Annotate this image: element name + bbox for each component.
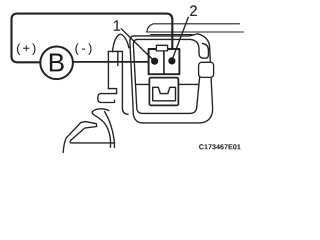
- label 2: [190, 5, 197, 15]
- bracket ear left edge: [107, 51, 109, 88]
- bracket right vertical 2: [117, 51, 119, 65]
- wire W2 battery (-) to pin 1: [73, 61, 153, 63]
- label (+): [17, 43, 35, 55]
- label (-): [75, 43, 91, 55]
- bracket foot tab: [98, 94, 117, 103]
- shelf line right: [178, 83, 198, 85]
- cable upper edge: [147, 24, 240, 32]
- label 1: [114, 20, 120, 30]
- connector inner outline: [137, 39, 208, 58]
- cable lower edge: [146, 31, 243, 33]
- rotation arrow outer curve: [92, 109, 110, 147]
- grommet arch: [113, 34, 129, 52]
- pin 1: [151, 58, 158, 65]
- keying tab: [156, 45, 167, 51]
- pin 2: [168, 57, 175, 64]
- bracket right vertical: [122, 51, 128, 114]
- rotation arrow inner curve: [105, 112, 115, 148]
- bracket ear bottom step: [108, 89, 116, 94]
- notched insert: [153, 87, 176, 101]
- lever clip: [63, 122, 114, 153]
- battery letter B: [50, 54, 64, 72]
- figure code C173467E01: [199, 144, 241, 149]
- pin box: [149, 49, 180, 74]
- cavity box: [149, 78, 178, 106]
- leader line 2: [172, 17, 188, 59]
- latch: [199, 62, 214, 77]
- wire W1 battery (+) loop to pin 2: [12, 14, 173, 63]
- leader line 1: [121, 29, 153, 60]
- pin box divider: [163, 49, 165, 74]
- connector outer outline: [130, 34, 213, 123]
- shelf line left: [136, 83, 150, 85]
- battery B circle: [40, 47, 73, 80]
- bracket ear top edge: [108, 50, 122, 52]
